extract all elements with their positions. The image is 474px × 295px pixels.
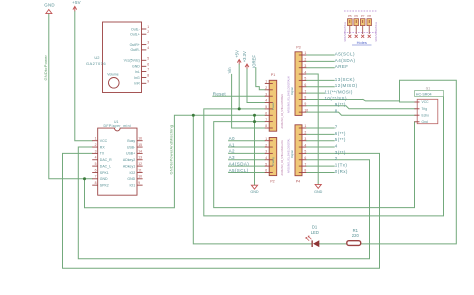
header P2 strip (269, 138, 277, 176)
wire U1 RX to pin2 of P4 (78, 147, 369, 259)
svg-text:2: 2 (95, 143, 97, 147)
svg-text:13: 13 (138, 156, 142, 160)
svg-text:P5: P5 (348, 14, 352, 18)
svg-text:1: 1 (304, 124, 306, 128)
svg-text:8: 8 (147, 74, 149, 78)
svg-text:P8: P8 (367, 14, 371, 18)
svg-text:GND: GND (314, 190, 323, 194)
svg-text:7: 7 (304, 89, 306, 93)
wire A3 label to P2 pin4 (229, 159, 265, 161)
header P2 pin stubs (265, 141, 273, 173)
svg-text:4: 4 (265, 156, 267, 160)
svg-text:6(**): 6(**) (335, 131, 346, 136)
svg-text:A0: A0 (229, 136, 235, 141)
junction dot GND row6 LED branch (192, 114, 195, 117)
svg-text:11: 11 (138, 168, 142, 172)
svg-text:1(Tx): 1(Tx) (335, 163, 348, 168)
svg-text:LED: LED (311, 230, 319, 235)
svg-text:P7: P7 (361, 14, 365, 18)
svg-text:Echo: Echo (422, 113, 430, 117)
wire GND branch down from U1 pin7 junction (85, 115, 265, 207)
svg-text:3: 3 (304, 137, 306, 141)
svg-text:InG: InG (134, 76, 140, 80)
wire IOREF to P1 pin2 (256, 68, 265, 90)
svg-text:P3: P3 (296, 45, 300, 49)
header P2 pin numbers (265, 137, 267, 173)
svg-text:Power: Power (271, 102, 275, 110)
svg-text:GNDtoPower: GNDtoPower (43, 54, 48, 80)
svg-text:1: 1 (265, 137, 267, 141)
LED D1 cathode bar (312, 240, 313, 247)
HC-SR04 G1 body (417, 99, 438, 123)
svg-text:5(**): 5(**) (335, 137, 346, 142)
wire P3 pin5 to 13(SCK) label (306, 79, 334, 81)
svg-text:5: 5 (95, 162, 97, 166)
U1 left pin labels (100, 139, 112, 187)
svg-text:2: 2 (304, 58, 306, 62)
LED D1 triangle (313, 240, 319, 247)
wire P3 pin3 to AREF label (306, 67, 334, 69)
wire A5(SCL) label to P2 pin6 (229, 171, 265, 173)
svg-text:10: 10 (138, 175, 142, 179)
svg-text:InR: InR (134, 82, 140, 86)
svg-text:4: 4 (304, 70, 306, 74)
wire LED branch from GND row6 (193, 115, 311, 244)
svg-text:IO2: IO2 (130, 171, 136, 175)
svg-text:8: 8 (95, 181, 97, 185)
svg-text:2: 2 (335, 156, 338, 161)
svg-text:6: 6 (265, 112, 267, 116)
svg-text:8: 8 (265, 124, 267, 128)
header P1 pin numbers (265, 80, 267, 129)
header P3 strip (295, 52, 302, 116)
wire P3 pin1 to A5(SCL) label (306, 54, 334, 56)
svg-text:U2: U2 (94, 55, 100, 60)
U2 pin labels (124, 27, 141, 85)
header P4 pin numbers (304, 124, 306, 172)
wire A4(SDA) label to P2 pin5 (229, 165, 265, 167)
wire P3 pin8 to 10 label (306, 98, 363, 100)
svg-text:8: 8 (304, 96, 306, 100)
header P4 strip (295, 125, 302, 176)
svg-text:A4(SDA): A4(SDA) (229, 161, 250, 166)
svg-text:ADkey1: ADkey1 (123, 164, 135, 168)
svg-text:A1: A1 (229, 142, 235, 147)
svg-text:12: 12 (138, 162, 142, 166)
hole pad P6 (354, 19, 359, 26)
IC U1 DFPlayer_mini body (98, 128, 137, 195)
svg-text:DFPlayer_mini: DFPlayer_mini (104, 124, 132, 128)
svg-text:Busy: Busy (127, 139, 135, 143)
svg-text:GND: GND (132, 65, 140, 69)
junction dot U1 pin7 GND (83, 177, 86, 180)
hole pad P5 (348, 19, 353, 26)
U1 right pin labels (123, 139, 136, 187)
wire P3 pin2 to A4(SDA) label (306, 60, 334, 62)
svg-text:7: 7 (335, 124, 338, 129)
svg-text:P4: P4 (296, 180, 300, 184)
svg-text:7: 7 (95, 175, 97, 179)
svg-text:MOUNTINGHOLE: MOUNTINGHOLE (375, 22, 378, 42)
wire +5V to P1 pin5 (238, 65, 240, 109)
supply +5V arrow top left (73, 6, 77, 11)
svg-text:ARDUINO_R3_SHIELDPOWER: ARDUINO_R3_SHIELDPOWER (281, 94, 284, 129)
svg-text:220: 220 (352, 233, 360, 238)
svg-text:6: 6 (147, 62, 149, 66)
U1 left pin numbers 1-8 (95, 137, 97, 185)
svg-text:RX: RX (100, 145, 106, 149)
header P1 pin stubs (265, 84, 273, 129)
svg-text:ADkey2: ADkey2 (123, 158, 135, 162)
junction dot +5V row5 (238, 107, 241, 110)
svg-text:HC-SR04: HC-SR04 (416, 93, 432, 97)
HC-SR04 pin labels (422, 100, 430, 124)
svg-text:OutR+: OutR+ (130, 43, 140, 47)
svg-text:IOREF: IOREF (251, 55, 256, 68)
svg-text:6: 6 (95, 168, 97, 172)
svg-text:InL: InL (135, 70, 140, 74)
svg-text:9(**): 9(**) (335, 102, 346, 107)
svg-text:2: 2 (265, 86, 267, 90)
svg-text:5: 5 (304, 77, 306, 81)
svg-text:12(MISO): 12(MISO) (335, 83, 358, 88)
svg-text:DAC_R: DAC_R (100, 158, 112, 162)
wire A2 label to P2 pin3 (229, 152, 265, 154)
wire GND vertical from top ground symbol (49, 14, 92, 179)
svg-text:ARDUINO_R3_SHIELDDIGITALHI: ARDUINO_R3_SHIELDDIGITALHI (288, 76, 291, 113)
ground symbol top left (46, 10, 52, 14)
svg-text:8: 8 (304, 169, 306, 173)
svg-text:4: 4 (265, 99, 267, 103)
HC-SR04 xref flag box (415, 91, 444, 97)
svg-text:5: 5 (265, 162, 267, 166)
svg-text:MOUNTINGHOLE: MOUNTINGHOLE (344, 22, 347, 42)
Holes mounting block frame (344, 11, 377, 32)
hole X marks (348, 35, 370, 38)
svg-text:1: 1 (265, 80, 267, 84)
svg-text:A2: A2 (229, 149, 235, 154)
U2 volume potentiometer circle (109, 78, 120, 89)
svg-text:Analog: Analog (271, 157, 275, 166)
svg-text:2: 2 (265, 143, 267, 147)
wire 10(SS) row continuation to HC-SR04 VCC (363, 99, 400, 100)
svg-text:4: 4 (335, 143, 338, 148)
U2 pin numbers 1-9 (147, 25, 149, 83)
svg-text:10: 10 (304, 108, 308, 112)
header P3 pin numbers (304, 51, 308, 112)
wire A0 label to P2 pin1 (229, 140, 265, 142)
svg-text:3: 3 (265, 92, 267, 96)
wire P4 pin7 to 1(Tx) label (306, 165, 334, 167)
svg-text:14: 14 (138, 149, 142, 153)
svg-text:16: 16 (138, 137, 142, 141)
svg-text:A5(SCL): A5(SCL) (229, 168, 249, 173)
svg-text:GND: GND (100, 177, 108, 181)
LED D1 emission arrows (306, 236, 312, 241)
svg-text:1: 1 (95, 137, 97, 141)
svg-text:VCC: VCC (422, 100, 430, 104)
svg-text:1: 1 (304, 51, 306, 55)
header P3 pin stubs (299, 55, 306, 112)
svg-text:15: 15 (138, 143, 142, 147)
wire GND row7 from right loop (214, 122, 415, 208)
svg-text:Digital: Digital (290, 150, 294, 158)
svg-text:Vin: Vin (227, 67, 232, 74)
hole pad labels P5 P6 P7 P8 (348, 14, 371, 18)
svg-text:+3.3V: +3.3V (242, 51, 247, 62)
svg-text:4: 4 (304, 143, 306, 147)
supply +5V arrow near P1 (237, 60, 241, 65)
svg-text:2: 2 (147, 30, 149, 34)
svg-text:8: 8 (335, 109, 338, 114)
svg-text:7: 7 (304, 162, 306, 166)
svg-text:7: 7 (265, 118, 267, 122)
wire P4 pin1 to 7 label (306, 127, 334, 129)
svg-text:Reset: Reset (213, 91, 227, 96)
svg-text:VCC: VCC (100, 139, 108, 143)
hole pad P8 (367, 19, 372, 26)
svg-text:OutL+: OutL+ (130, 33, 140, 37)
wire +5V row5 to loop (204, 97, 444, 216)
hole pad P7 (360, 19, 365, 26)
svg-text:13(SCK): 13(SCK) (335, 77, 355, 82)
svg-text:3: 3 (95, 149, 97, 153)
svg-text:Holes: Holes (357, 40, 367, 45)
svg-text:SPK1: SPK1 (100, 171, 109, 175)
svg-text:USB-: USB- (127, 145, 136, 149)
supply +3.3V arrow near P1 (245, 64, 249, 69)
svg-text:Digital: Digital (290, 87, 294, 95)
svg-text:G1: G1 (426, 86, 430, 90)
wire P4 pin4 to 4 label (306, 146, 334, 148)
svg-text:ARDUINO_R3_SHIELDANALOG: ARDUINO_R3_SHIELDANALOG (281, 140, 284, 175)
svg-text:USB+: USB+ (126, 152, 135, 156)
wire LED cathode to R1 (319, 243, 346, 245)
LED D1 symbol (306, 236, 319, 247)
svg-text:OutR-: OutR- (130, 48, 140, 52)
header P1 strip (269, 80, 277, 131)
svg-text:6: 6 (304, 156, 306, 160)
svg-text:3(**): 3(**) (335, 150, 346, 155)
wire P3 pin7 to 11 label (306, 92, 324, 94)
wire P3 pin9 to HC-SR04 Trig (306, 106, 415, 109)
wire Reset to P1 pin3 (213, 95, 265, 97)
svg-text:3: 3 (304, 64, 306, 68)
Holes caption underline (352, 44, 372, 46)
svg-text:9: 9 (138, 181, 140, 185)
ground symbol under P4 (315, 184, 321, 188)
svg-text:GND: GND (250, 190, 259, 194)
svg-text:9: 9 (304, 102, 306, 106)
svg-text:3: 3 (147, 41, 149, 45)
wire P4 pin8 to 0(Rx) label (306, 171, 334, 173)
svg-text:DAC_L: DAC_L (100, 164, 111, 168)
svg-text:2: 2 (304, 131, 306, 135)
svg-text:10(**/SS): 10(**/SS) (325, 96, 347, 101)
svg-text:5: 5 (265, 105, 267, 109)
svg-text:IO1: IO1 (130, 183, 136, 187)
svg-text:+5V: +5V (72, 0, 81, 5)
U2 right pin stubs (142, 29, 147, 83)
svg-text:Volume: Volume (107, 73, 118, 77)
HC-SR04 pin stubs (415, 102, 420, 122)
svg-text:4: 4 (147, 46, 149, 50)
svg-text:9: 9 (147, 79, 149, 83)
svg-text:Gnd: Gnd (422, 120, 428, 124)
svg-text:A5(SCL): A5(SCL) (335, 51, 355, 56)
U1 left pin stubs (92, 141, 98, 185)
ground symbol under P2 (251, 185, 257, 189)
header P4 pin stubs (299, 128, 306, 172)
svg-text:TX: TX (100, 152, 105, 156)
svg-text:5: 5 (147, 56, 149, 60)
wire P4 pin3 to 5 label (306, 140, 334, 142)
U1 right pin stubs (137, 141, 143, 185)
svg-text:Vcc(5Vdc): Vcc(5Vdc) (124, 59, 140, 63)
U1 right pin numbers 16-9 (138, 137, 142, 185)
svg-text:1: 1 (147, 25, 149, 29)
svg-text:P2: P2 (270, 180, 274, 184)
svg-text:GND: GND (44, 3, 55, 8)
wire GND chain P1 pins6-7 down to ground under P2 (254, 115, 256, 185)
wire +3.3V to P1 pin4 (247, 69, 265, 103)
wire +5V supply to U1 VCC (75, 11, 92, 140)
svg-text:P6: P6 (354, 14, 358, 18)
wire P3 pin6 to 12(MISO) label (306, 86, 334, 88)
svg-text:ARDUINO_R3_SHIELDDIGITAL: ARDUINO_R3_SHIELDDIGITAL (288, 138, 291, 173)
svg-text:GA27076: GA27076 (86, 61, 106, 66)
svg-text:P1: P1 (271, 73, 275, 77)
svg-text:11(**/MOSI): 11(**/MOSI) (325, 90, 353, 95)
svg-text:Trig: Trig (422, 107, 428, 111)
svg-text:SPK2: SPK2 (100, 183, 109, 187)
junction dot GND chain row7 (253, 120, 256, 123)
svg-text:3: 3 (265, 150, 267, 154)
wire A1 label to P2 pin2 (229, 146, 265, 148)
svg-text:4: 4 (95, 156, 97, 160)
wire P3 pin4 to ground under P4 (306, 74, 318, 184)
svg-text:GNDtoPowerAndMisching: GNDtoPowerAndMisching (169, 125, 174, 175)
wire Vin to P1 pin8 (232, 74, 265, 128)
wire R1 to pin13 riser (361, 80, 456, 244)
svg-text:D1: D1 (312, 225, 318, 230)
svg-text:A3: A3 (229, 155, 235, 160)
junction dot GND chain row6 (253, 114, 256, 117)
svg-text:+5V: +5V (234, 50, 239, 58)
wire U1 TX to pin3 of P4 (63, 153, 380, 268)
svg-text:AREF: AREF (335, 64, 349, 69)
wire P3 pin10 to HC-SR04 Echo (306, 112, 415, 115)
hole stubs down from pads (350, 20, 369, 34)
svg-text:6: 6 (265, 169, 267, 173)
svg-text:6: 6 (304, 83, 306, 87)
svg-text:GND: GND (127, 177, 135, 181)
wire P4 pin2 to 6 label (306, 133, 334, 135)
resistor R1 (347, 241, 361, 246)
svg-text:A4(SDA): A4(SDA) (335, 58, 356, 63)
svg-text:5: 5 (304, 150, 306, 154)
IC U2 GA27076 body (103, 22, 142, 93)
svg-text:OutL-: OutL- (131, 27, 141, 31)
svg-text:0(Rx): 0(Rx) (335, 169, 348, 174)
svg-text:7: 7 (147, 68, 149, 72)
